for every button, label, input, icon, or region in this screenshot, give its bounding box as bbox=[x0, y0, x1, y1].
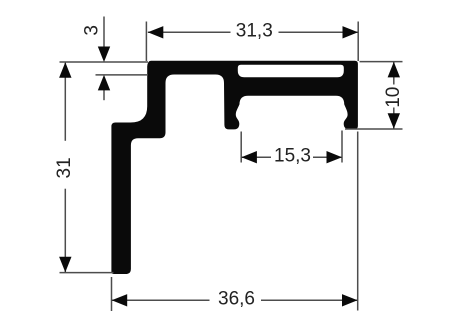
arrow down for 3 bbox=[98, 47, 110, 63]
svg-text:10: 10 bbox=[383, 87, 404, 108]
dimension line 15,3 left fragment bbox=[241, 156, 271, 158]
extension line bottom of 31 bbox=[60, 272, 114, 274]
extension line bottom of 10 bbox=[345, 128, 403, 130]
dimension line 31,3 left fragment bbox=[148, 31, 231, 33]
dimension line 10 lower fragment bbox=[393, 108, 395, 129]
dimension line 10 upper fragment bbox=[393, 62, 395, 85]
dimension line 36,6 right fragment bbox=[261, 299, 358, 301]
extension line left of 36,6 bbox=[111, 277, 113, 311]
arrow up 10 bbox=[388, 62, 400, 78]
dimension line 15,3 right fragment bbox=[313, 156, 342, 158]
dimension 3 top-left bbox=[60, 17, 149, 101]
arrow tail above bbox=[103, 17, 105, 49]
extension line left of 15,3 bbox=[240, 132, 242, 163]
dimension line 31 upper fragment bbox=[64, 63, 66, 141]
dimension 31 left bbox=[60, 63, 114, 273]
extension line right of 15,3 bbox=[341, 131, 343, 163]
extension line right of 36,6 bbox=[357, 132, 359, 311]
arrow down 10 bbox=[388, 113, 400, 129]
extension line left of 31,3 bbox=[145, 22, 147, 62]
dimension 15,3 middle bbox=[241, 131, 342, 163]
extension line right of 31,3 bbox=[357, 22, 359, 62]
svg-text:36,6: 36,6 bbox=[218, 288, 255, 309]
arrow right 15,3 bbox=[327, 151, 343, 163]
extension line top of 10 bbox=[360, 61, 403, 63]
arrow up for 3 bbox=[98, 75, 110, 91]
arrow left 15,3 bbox=[241, 151, 257, 163]
dimension line 31,3 right fragment bbox=[279, 31, 359, 33]
svg-text:31: 31 bbox=[54, 157, 75, 178]
reference line cutout ceiling bbox=[96, 74, 149, 76]
dimension 10 right bbox=[345, 62, 403, 129]
dimension line 31 lower fragment bbox=[64, 189, 66, 272]
svg-text:3: 3 bbox=[82, 25, 103, 36]
reference line top surface bbox=[60, 61, 149, 63]
dimension 31,3 top bbox=[146, 22, 358, 62]
arrow left 31,3 bbox=[148, 26, 164, 38]
arrow tail below bbox=[103, 90, 105, 101]
dimension line 36,6 left fragment bbox=[112, 299, 210, 301]
arrow right 36,6 bbox=[342, 294, 358, 306]
profile body bbox=[111, 61, 358, 274]
dimension 36,6 bottom bbox=[112, 132, 358, 312]
arrow right 31,3 bbox=[343, 26, 359, 38]
arrow left 36,6 bbox=[112, 294, 128, 306]
arrow down 31 bbox=[59, 257, 71, 273]
svg-text:15,3: 15,3 bbox=[274, 146, 311, 167]
arrow up 31 bbox=[59, 62, 71, 78]
svg-text:31,3: 31,3 bbox=[236, 21, 273, 42]
